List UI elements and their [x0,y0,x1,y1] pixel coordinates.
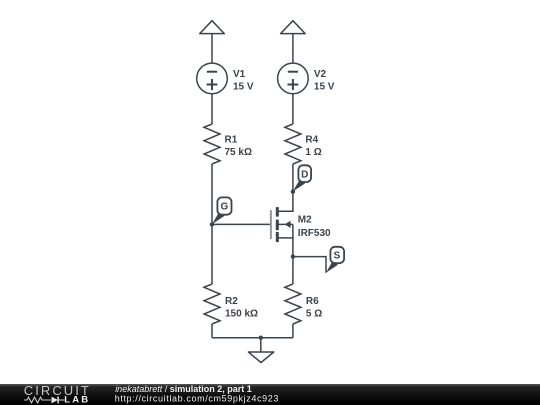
ground [248,338,273,363]
node G flag [212,197,232,224]
svg-text:V2: V2 [314,69,327,80]
resistor R2 [204,284,220,324]
svg-text:M2: M2 [298,215,312,226]
junction (node S) [291,254,295,258]
wire (gate lead) [212,223,271,225]
node D flag [293,165,311,191]
svg-text:IRF530: IRF530 [298,228,331,239]
resistor R4 [285,124,301,164]
svg-text:R4: R4 [305,134,318,145]
svg-text:S: S [334,251,341,262]
svg-text:V1: V1 [233,69,246,80]
wire (drain) [278,164,293,211]
resistor R6 [285,284,301,324]
svg-text:15 V: 15 V [314,82,335,93]
wire [292,238,294,284]
power flag (V+ right) [281,21,306,34]
label V1 value [233,69,254,93]
label M2 value [298,215,331,239]
wire [292,33,294,62]
svg-text:http://circuitlab.com/cm59pkjz: http://circuitlab.com/cm59pkjz4c923 [115,394,279,404]
voltage source V1 [197,63,228,94]
wire [292,94,294,124]
label V2 value [314,69,335,93]
wire (to S flag) [293,257,326,273]
junction (node D) [291,190,295,194]
svg-text:LAB: LAB [64,395,90,405]
node S flag [326,247,344,273]
svg-text:G: G [221,202,229,213]
svg-text:75 kΩ: 75 kΩ [225,147,252,158]
label R2 value [225,296,258,320]
svg-text:5 Ω: 5 Ω [306,309,322,320]
label R1 value [225,134,252,158]
label R6 value [306,296,322,320]
wire [211,324,213,338]
wire (bottom rail) [212,337,293,339]
wire [211,164,213,284]
footer logo resistor-diode squiggle [24,397,65,404]
junction (node G) [210,222,214,226]
svg-text:D: D [301,169,308,180]
voltage source V2 [278,63,309,94]
wire [211,33,213,62]
svg-text:150 kΩ: 150 kΩ [225,309,258,320]
label R4 value [305,134,321,158]
transistor M2 (NMOS) [271,207,293,242]
wire [292,324,294,338]
svg-text:15 V: 15 V [233,82,254,93]
svg-text:R6: R6 [306,296,319,307]
svg-text:R1: R1 [225,134,238,145]
wire [211,94,213,124]
svg-text:inekatabrett / simulation 2, p: inekatabrett / simulation 2, part 1 [115,384,252,394]
svg-text:1 Ω: 1 Ω [305,147,321,158]
wire (source) [278,224,293,238]
power flag (V+ left) [200,21,225,34]
resistor R1 [204,124,220,164]
footer bar [0,384,540,405]
svg-text:R2: R2 [225,296,238,307]
junction (ground rail) [259,336,263,340]
